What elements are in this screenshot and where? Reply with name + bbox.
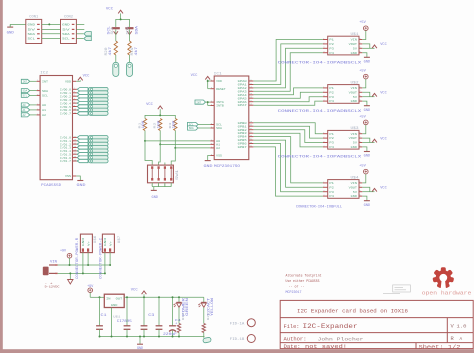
wire VCC output rail <box>124 296 204 298</box>
wire GPA3 to U$1 P4 <box>253 53 323 92</box>
wire tag to IC2 pin <box>30 104 37 106</box>
pin I/O0.2 <box>60 94 77 99</box>
IC U1 MCP23017 body <box>214 72 249 169</box>
svg-text:GND: GND <box>137 347 143 351</box>
svg-text:A2: A2 <box>42 114 46 117</box>
svg-text:P3: P3 <box>329 191 334 194</box>
pad flag I/O1.1 <box>77 139 108 143</box>
svg-text:INT: INT <box>42 81 48 84</box>
svg-text:A0: A0 <box>23 104 27 107</box>
ground at IC1 <box>204 161 213 169</box>
svg-text:+5V: +5V <box>359 21 366 25</box>
svg-text:5V: 5V <box>353 47 358 50</box>
svg-text:GPA7: GPA7 <box>238 104 247 107</box>
capacitor C3 <box>141 297 155 336</box>
supply VCC address network <box>146 103 163 109</box>
wire GPB5 to U$4 P2 <box>253 140 323 187</box>
fiducial FID-1A <box>230 319 256 327</box>
svg-text:P4: P4 <box>329 195 334 198</box>
pad SDA/SCL breakout <box>84 32 92 41</box>
pad flag I/O1.7 <box>77 159 108 163</box>
svg-text:VOUT: VOUT <box>349 91 358 94</box>
svg-text:10K: 10K <box>156 120 160 128</box>
wire VOUT jumper to 5V <box>362 92 370 96</box>
net tag INT <box>195 100 206 104</box>
supply +9V regulator input <box>87 285 94 297</box>
svg-text:VDD: VDD <box>216 80 222 83</box>
wire R19 to pad <box>129 55 131 62</box>
svg-text:GND: GND <box>62 23 70 27</box>
pad flag I/O1.3 <box>77 146 108 150</box>
U$ right pin stubs <box>359 180 362 196</box>
svg-text:Use either PCA9555: Use either PCA9555 <box>286 279 320 284</box>
svg-text:U$3: U$3 <box>351 126 359 131</box>
node junction <box>174 147 176 149</box>
wire A1 to IC1 <box>160 143 210 145</box>
ground at U$3 <box>364 152 370 159</box>
svg-text:R19: R19 <box>130 47 134 55</box>
supply VCC at U$1 <box>372 43 387 48</box>
svg-text:MCP23017SO: MCP23017SO <box>214 165 240 169</box>
svg-text:P2: P2 <box>329 186 334 189</box>
LED2 activity + resistor R23 <box>198 297 214 338</box>
svg-text:CONNECTOR-POWER-C: CONNECTOR-POWER-C <box>99 237 103 279</box>
svg-text:VIN: VIN <box>351 133 358 136</box>
wire GPA4 to U$2 P1 <box>253 88 323 95</box>
U$ left pin stubs <box>323 37 328 53</box>
pad flag I/O0.4 <box>77 101 108 105</box>
wire GPB2 to U$3 P3 <box>253 130 323 143</box>
wire VCC to jumpers <box>116 13 130 27</box>
U$ left pin stubs <box>323 180 328 196</box>
svg-text:U$7: U$7 <box>117 236 121 244</box>
svg-text:I/O1.6: I/O1.6 <box>60 156 71 160</box>
supply VCC at U$4 <box>372 187 387 192</box>
svg-text:VIN: VIN <box>50 260 57 264</box>
frame left border bar <box>0 0 3 353</box>
svg-text:I/O1.0: I/O1.0 <box>60 136 71 140</box>
svg-text:1.0: 1.0 <box>457 325 467 330</box>
pin I/O1.7 <box>60 158 77 163</box>
svg-text:CI7805: CI7805 <box>117 320 132 324</box>
svg-text:SDA: SDA <box>62 32 70 36</box>
node junction <box>143 296 145 298</box>
node junction <box>109 264 111 266</box>
U$ left pin stubs <box>323 131 328 147</box>
ground at U$1 <box>364 57 370 64</box>
connector CON1 <box>26 15 42 43</box>
test pad SCL <box>113 62 119 76</box>
supply VCC at U$2 <box>372 92 387 97</box>
solder jumper SJ2 SDA <box>125 25 139 35</box>
svg-text:U$6: U$6 <box>93 236 97 244</box>
svg-text:GND: GND <box>77 184 86 188</box>
svg-text:CONNECTOR-IO4-IOPADBSCLX: CONNECTOR-IO4-IOPADBSCLX <box>278 156 362 160</box>
svg-text:VOUT: VOUT <box>349 43 358 46</box>
node junction <box>82 272 84 274</box>
wire VOUT jumper to 5V <box>362 44 370 48</box>
svg-text:U$2: U$2 <box>351 80 359 85</box>
capacitor C2 <box>124 297 131 336</box>
pin I/O0.1 <box>60 90 77 95</box>
svg-text:GREEN: GREEN <box>185 298 189 316</box>
wire tag to IC2 pin <box>30 80 37 82</box>
node junction <box>139 336 141 338</box>
supply +9V <box>60 250 72 265</box>
wire CON2 GND stub <box>76 23 84 25</box>
svg-text:IC2: IC2 <box>40 72 48 76</box>
svg-text:File:: File: <box>284 324 300 330</box>
svg-text:GND: GND <box>364 109 370 113</box>
svg-text:4k7: 4k7 <box>134 47 139 56</box>
node junction <box>178 296 180 298</box>
net tag SCL at IC2 <box>21 93 29 97</box>
node junction INT <box>207 101 209 103</box>
ground at SW1 <box>151 190 158 200</box>
svg-text:C1: C1 <box>101 313 107 317</box>
svg-text:GND: GND <box>351 100 358 103</box>
connector U$1 body <box>328 32 359 55</box>
wire resistor down <box>159 131 161 145</box>
frame bottom border bar <box>0 349 474 353</box>
wire ground rail bottom <box>100 336 205 338</box>
U$ right pin stubs <box>359 85 362 101</box>
pin stub <box>37 93 41 96</box>
supply VCC pullups <box>106 7 123 13</box>
svg-text:V+: V+ <box>109 240 112 246</box>
title block outline <box>280 300 473 348</box>
pin I/O1.2 <box>60 142 77 147</box>
svg-text:P2: P2 <box>329 137 334 140</box>
pad test point <box>203 337 212 343</box>
svg-text:U$1: U$1 <box>113 315 120 319</box>
supply +5V at U$3 <box>359 115 368 124</box>
node junction <box>111 336 113 338</box>
svg-text:I/O0.0: I/O0.0 <box>60 88 71 92</box>
resistor R1 10K <box>139 119 147 131</box>
DIP switch SW1 <box>148 165 179 183</box>
svg-text:P1: P1 <box>329 133 334 136</box>
svg-text:4k7: 4k7 <box>108 47 113 56</box>
IC2 left pin names <box>42 81 48 118</box>
SW1 pin numbers <box>151 184 172 187</box>
wire GND pin down <box>362 101 367 105</box>
wire VCC to VDD and RESET <box>208 80 211 89</box>
wire VCC bus to resistors <box>145 109 175 118</box>
svg-text:I/O0.4: I/O0.4 <box>60 101 71 105</box>
pad flag I/O1.6 <box>77 156 108 160</box>
pin I/O0.6 <box>60 107 77 112</box>
svg-text:CONNECTOR-IO4-IOPADBSCLX: CONNECTOR-IO4-IOPADBSCLX <box>278 110 362 114</box>
wire GND pin down <box>362 53 367 57</box>
svg-text:VCC: VCC <box>380 92 386 96</box>
svg-text:I/O1.5: I/O1.5 <box>60 152 71 156</box>
wire GND pin down <box>362 147 367 151</box>
svg-text:SDA: SDA <box>42 90 48 93</box>
IC1 right pin names <box>238 80 247 149</box>
svg-text:C4: C4 <box>175 319 181 322</box>
wire tag to IC2 pin <box>30 94 37 96</box>
svg-text:YELLOW: YELLOW <box>210 298 214 316</box>
pin I/O0.0 <box>60 87 77 92</box>
wire IC1 VSS to ground <box>208 156 211 161</box>
svg-text:I/O1.2: I/O1.2 <box>60 142 71 146</box>
svg-text:VSS: VSS <box>216 155 222 158</box>
svg-text:GND: GND <box>351 52 358 55</box>
node junction <box>87 264 89 266</box>
wire CON2 5V stub <box>76 28 84 30</box>
svg-text:VOUT: VOUT <box>349 137 358 140</box>
wire +5V to VIN <box>362 79 366 88</box>
node junction <box>99 336 101 338</box>
capacitor C1 <box>96 297 107 336</box>
svg-text:+5V: +5V <box>359 165 366 169</box>
fiducial FID-1B <box>230 335 256 343</box>
svg-text:U$4: U$4 <box>351 175 359 180</box>
wire R20 to pad <box>115 55 117 62</box>
svg-text:U$1: U$1 <box>351 32 359 37</box>
pad flag I/O1.0 <box>77 136 108 140</box>
node junction VDD <box>207 80 209 82</box>
svg-text:GND: GND <box>82 237 85 246</box>
connector power screw terminal R <box>80 234 92 253</box>
svg-text:I/O0.1: I/O0.1 <box>60 91 71 95</box>
wire terminal GND pin <box>104 253 106 274</box>
svg-text:VCC: VCC <box>191 74 199 78</box>
pad flag I/O0.5 <box>77 105 108 109</box>
svg-text:I/O1.7: I/O1.7 <box>60 159 71 163</box>
wire 5V to VCC <box>362 47 374 49</box>
IC1 left pin names <box>216 80 226 158</box>
svg-text:FID-1B: FID-1B <box>230 338 245 342</box>
wire INT tag to INTA INTB <box>206 102 211 105</box>
net tag A2 at IC2 <box>21 113 29 117</box>
revision cell <box>451 336 463 342</box>
svg-text:I/O0.5: I/O0.5 <box>60 105 71 109</box>
wire tag to IC2 pin <box>30 109 37 111</box>
svg-text:not saved!: not saved! <box>305 344 347 350</box>
U$ right pin stubs <box>359 37 362 53</box>
svg-text:SDA: SDA <box>216 127 222 130</box>
wire SJ1 to R20 <box>115 29 117 41</box>
svg-text:INT: INT <box>196 101 201 104</box>
wire GND rail <box>58 272 105 274</box>
connector U$3 body <box>328 126 359 149</box>
resistor R2 10K <box>154 119 162 131</box>
svg-text:P2: P2 <box>329 43 334 46</box>
svg-text:INTB: INTB <box>216 105 224 108</box>
logo open hardware gear <box>432 267 454 289</box>
svg-text:VCC: VCC <box>380 43 386 47</box>
net tag A1 at IC2 <box>21 108 29 112</box>
svg-text:I2C Expander card based on IOX: I2C Expander card based on IOX16 <box>297 308 408 315</box>
supply +5V at U$4 <box>359 165 368 174</box>
svg-text:GND: GND <box>351 146 358 149</box>
svg-text:SDA: SDA <box>189 127 194 130</box>
svg-text:VCC: VCC <box>131 289 139 293</box>
svg-text:R23: R23 <box>207 313 210 320</box>
file row <box>284 323 358 330</box>
svg-text:INT: INT <box>23 80 28 83</box>
wire CON1 to CON2 x4 <box>42 24 61 38</box>
connector power screw terminal C <box>102 234 114 253</box>
wire GPB6 to U$4 P3 <box>253 144 323 192</box>
capacitor C5 electrolytic 220uF <box>163 297 181 337</box>
svg-text:SCL: SCL <box>62 37 70 41</box>
wire GPA6 to U$2 P3 <box>253 97 323 102</box>
pad flag I/O1.5 <box>77 152 108 156</box>
pad flag I/O0.2 <box>77 94 108 98</box>
pad flag I/O1.4 <box>77 149 108 153</box>
svg-text:5V: 5V <box>353 191 358 194</box>
svg-text:-- or --: -- or -- <box>289 285 305 290</box>
svg-text:I/O0.3: I/O0.3 <box>60 98 71 102</box>
IC1 left pin stubs <box>210 78 214 155</box>
svg-text:OUT: OUT <box>116 298 123 301</box>
svg-text:5V: 5V <box>353 142 358 145</box>
svg-text:A2: A2 <box>23 114 27 117</box>
wire terminal V+ pin <box>109 253 111 265</box>
svg-text:P3: P3 <box>329 47 334 50</box>
wire tag to IC2 pin <box>30 90 37 92</box>
svg-text:SDA: SDA <box>23 90 28 93</box>
net tag SDA at IC2 <box>21 89 29 93</box>
svg-text:I2C-Expander: I2C-Expander <box>303 323 358 330</box>
svg-text:SDA: SDA <box>135 25 139 35</box>
ground triangle at jack <box>68 273 73 284</box>
net tag SDA at IC1 <box>188 126 199 130</box>
ground at IC2 <box>77 181 86 188</box>
svg-text:GPB7: GPB7 <box>238 146 247 149</box>
pin I/O1.6 <box>60 155 77 160</box>
pin I/O1.3 <box>60 145 77 150</box>
svg-text:GND: GND <box>152 196 158 200</box>
svg-text:SW1: SW1 <box>175 170 179 180</box>
wire VOUT jumper to 5V <box>362 187 370 191</box>
pad flag I/O0.6 <box>77 108 108 112</box>
svg-text:Author:: Author: <box>284 336 307 342</box>
wire GPB1 to U$3 P2 <box>253 126 323 138</box>
svg-text:P1: P1 <box>329 182 334 185</box>
wire resistor down <box>174 131 176 148</box>
pin I/O1.5 <box>60 152 77 157</box>
wire GPB7 to U$4 P4 <box>253 147 323 196</box>
svg-text:+5V: +5V <box>359 115 366 119</box>
pad flag I/O0.0 <box>77 87 108 91</box>
node junction VCC split <box>120 18 122 20</box>
wire GPA1 to U$1 P2 <box>253 44 323 85</box>
note alternate footprint <box>286 274 322 296</box>
svg-text:P4: P4 <box>329 146 334 149</box>
placeholder grey line <box>383 293 400 295</box>
svg-text:5V: 5V <box>62 28 70 32</box>
capacitor C4 <box>156 297 163 336</box>
pin stub <box>37 112 41 115</box>
connector U$2 body <box>328 80 359 103</box>
connector CON2 <box>61 15 77 43</box>
supply VCC at IC1 <box>191 74 211 80</box>
wire 5V to VCC <box>362 142 374 144</box>
svg-text:I/O0.7: I/O0.7 <box>60 112 71 116</box>
svg-text:VCC: VCC <box>380 187 386 191</box>
wire GPB4 to U$4 P1 <box>253 137 323 183</box>
pin stub <box>37 107 41 110</box>
svg-text:CONNECTOR-IO4-IOBFULL: CONNECTOR-IO4-IOBFULL <box>296 206 342 210</box>
svg-text:CONNECTOR-IO4-IOPADBSCLX: CONNECTOR-IO4-IOPADBSCLX <box>278 62 362 66</box>
wire A2 to IC1 <box>175 147 210 149</box>
IC2 VDD VSS names <box>65 81 71 179</box>
svg-text:P1: P1 <box>329 39 334 42</box>
ground at U$2 <box>364 106 370 113</box>
svg-text:CONNECTOR-POWER-R: CONNECTOR-POWER-R <box>76 237 80 279</box>
node junction +9V <box>69 264 71 266</box>
svg-text:R20: R20 <box>104 47 108 55</box>
wire GPB3 to U$3 P4 <box>253 133 323 147</box>
svg-text:CON1: CON1 <box>29 15 38 19</box>
wire CON2 SCL <box>76 38 83 40</box>
test pad SDA <box>127 62 133 76</box>
svg-text:VCC: VCC <box>146 103 154 107</box>
wire GND to CON1 <box>10 23 26 25</box>
svg-text:A0: A0 <box>42 104 46 107</box>
wire SCL tag <box>198 124 210 126</box>
pin stub VDD <box>73 80 77 82</box>
wire tag to IC2 pin <box>30 114 37 116</box>
wire VOUT jumper to 5V <box>362 138 370 142</box>
svg-text:+5V: +5V <box>359 70 366 74</box>
svg-text:C3: C3 <box>148 313 154 317</box>
svg-text:VIN: VIN <box>351 182 358 185</box>
svg-text:P2: P2 <box>329 91 334 94</box>
wire terminal GND pin <box>82 253 84 274</box>
wire terminal V+ pin <box>87 253 89 265</box>
pin stub <box>37 102 41 105</box>
svg-text:VDD: VDD <box>65 81 71 84</box>
svg-text:Date:: Date: <box>284 344 301 350</box>
pin I/O1.4 <box>60 148 77 153</box>
svg-text:FID-1A: FID-1A <box>230 322 245 326</box>
svg-text:5V: 5V <box>28 28 36 32</box>
svg-text:SCL: SCL <box>28 37 36 41</box>
svg-text:GND: GND <box>204 165 213 169</box>
wire SJ2 to R19 <box>129 29 131 41</box>
solder jumper SJ1 SCL <box>107 26 120 35</box>
wire GPA5 to U$2 P2 <box>253 92 323 98</box>
svg-text:open hardware: open hardware <box>422 291 472 297</box>
svg-text:VIN: VIN <box>351 87 358 90</box>
wire 5V to VCC <box>362 191 374 193</box>
svg-text:GND: GND <box>351 195 358 198</box>
node junction C1 tap <box>99 296 101 298</box>
wire GPB0 to U$3 P1 <box>253 123 323 134</box>
svg-text:A1: A1 <box>42 109 46 112</box>
LED1 power + resistor R19 <box>173 297 189 336</box>
wire resistor down <box>144 131 146 141</box>
node junction VCC <box>159 114 161 116</box>
svg-text:GND: GND <box>104 237 107 246</box>
svg-text:+9V: +9V <box>60 250 67 254</box>
svg-text:220uF: 220uF <box>163 333 177 337</box>
pin I/O1.1 <box>60 138 77 143</box>
svg-text:I/O1.3: I/O1.3 <box>60 146 71 150</box>
resistor R19 4k7 <box>128 41 139 56</box>
node junction <box>144 140 146 142</box>
svg-text:GND: GND <box>364 61 370 65</box>
svg-text:VCC: VCC <box>83 75 91 79</box>
U$ right pin stubs <box>359 131 362 147</box>
svg-text:SCL: SCL <box>110 26 114 34</box>
svg-text:VSS: VSS <box>65 175 71 178</box>
